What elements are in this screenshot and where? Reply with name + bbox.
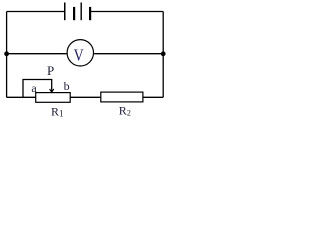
svg-text:a: a [31,81,37,95]
svg-text:P: P [47,63,54,78]
svg-text:R2: R2 [119,103,131,117]
svg-text:R1: R1 [51,105,64,119]
svg-text:b: b [64,79,70,93]
svg-text:V: V [74,46,85,65]
